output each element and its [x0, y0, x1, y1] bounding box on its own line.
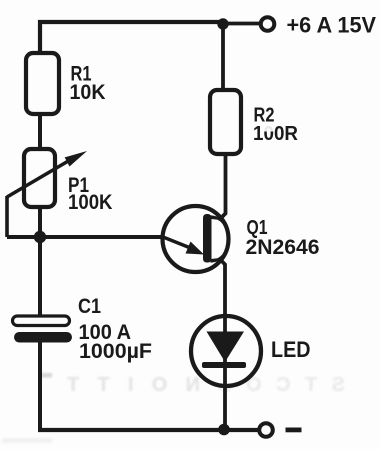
wire P1 to node A	[38, 206, 42, 238]
terminal negative open circle	[259, 423, 273, 437]
wire bottom rail	[38, 428, 260, 432]
resistor R1	[26, 53, 59, 114]
LED body circle	[191, 316, 261, 386]
svg-text:LED: LED	[271, 337, 311, 362]
wire node A horizontal to emitter	[7, 235, 164, 239]
LED cathode bar	[202, 362, 246, 368]
junction node at top rail	[217, 18, 228, 29]
svg-text:100R: 100R	[253, 123, 299, 145]
LED triangle (anode)	[207, 332, 245, 363]
wire Q1 base B1 to LED and bottom junction	[220, 259, 226, 431]
terminal +V open circle	[261, 17, 275, 31]
wire R1 to P1	[38, 112, 42, 150]
wire top junction to R2	[221, 22, 225, 91]
capacitor C1 bottom plate	[14, 332, 72, 343]
transistor Q1 base B1 stub	[211, 260, 220, 261]
svg-text:10K: 10K	[70, 81, 106, 104]
svg-text:2N2646: 2N2646	[246, 236, 320, 259]
potentiometer P1	[24, 149, 55, 207]
capacitor C1 top plate	[13, 316, 70, 326]
resistor R2	[210, 90, 241, 154]
minus sign	[286, 428, 302, 433]
wire top rail	[40, 22, 223, 54]
transistor Q1 emitter lead with arrow	[163, 237, 193, 249]
svg-text:100K: 100K	[68, 191, 113, 214]
wire node A down to C1	[38, 237, 42, 317]
wire R2 to Q1 base B2	[220, 153, 226, 219]
transistor Q1 base bar	[203, 214, 212, 263]
svg-text:C1: C1	[78, 295, 101, 318]
transistor Q1 body circle	[163, 206, 229, 272]
junction node A dot	[34, 231, 46, 243]
svg-text:1000µF: 1000µF	[79, 340, 152, 363]
potentiometer P1 wiper arrow	[7, 160, 70, 197]
transistor Q1 base B2 stub	[211, 218, 221, 219]
wire C1 to bottom rail	[38, 342, 42, 429]
wire to +V terminal	[223, 22, 261, 26]
junction node at bottom rail	[218, 424, 230, 436]
svg-text:+6 A 15V: +6 A 15V	[287, 13, 377, 38]
wire P1 wiper tail	[5, 196, 9, 237]
transistor Q1 base outline D-curve	[211, 217, 229, 262]
